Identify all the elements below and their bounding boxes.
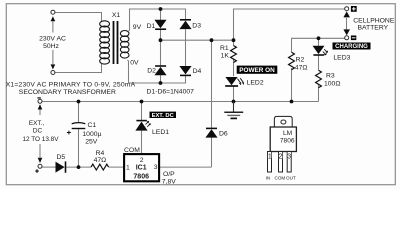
node D2 anode 0V rail — [159, 81, 163, 85]
svg-text:LED3: LED3 — [333, 54, 350, 61]
wire R2 column bottom — [291, 68, 293, 102]
svg-text:R3: R3 — [326, 72, 335, 79]
regulator IC1 box — [124, 154, 159, 181]
terminal battery plus — [345, 7, 349, 11]
svg-text:D4: D4 — [193, 68, 202, 75]
svg-text:OUT: OUT — [286, 175, 296, 180]
node C1 ground rail — [77, 100, 81, 104]
package leg 1 — [268, 152, 272, 173]
capacitor C1 — [67, 123, 85, 135]
svg-text:O/P: O/P — [163, 171, 175, 178]
label POWER ON — [237, 66, 278, 75]
wire LED1 top — [141, 102, 143, 121]
svg-text:1: 1 — [126, 165, 130, 172]
diode D6 — [205, 128, 217, 137]
wire AC vertical upper — [52, 21, 54, 33]
svg-text:50Hz: 50Hz — [43, 43, 59, 50]
wire AC bottom terminal to primary — [55, 64, 102, 73]
terminal AC top — [51, 10, 55, 14]
wire LED1 to IC1 com — [141, 131, 143, 155]
diode D2 — [154, 66, 166, 75]
svg-text:0V: 0V — [130, 59, 139, 66]
resistor R3 — [316, 70, 322, 88]
resistor R1 — [231, 46, 237, 63]
resistor R4 — [91, 164, 109, 170]
svg-text:LED1: LED1 — [152, 129, 169, 136]
svg-text:EXT.,: EXT., — [29, 120, 44, 127]
wire LED2 to ground rail — [233, 86, 235, 102]
svg-text:C1: C1 — [88, 122, 97, 129]
svg-text:25V: 25V — [85, 138, 98, 145]
svg-text:2: 2 — [140, 157, 144, 164]
border frame — [6, 4, 395, 185]
terminal ext dc plus — [38, 164, 42, 168]
wire D1 to node — [160, 29, 162, 40]
wire D1 column top — [160, 9, 162, 20]
svg-text:D1-D6=1N4007: D1-D6=1N4007 — [147, 89, 195, 96]
LED LED1 — [135, 121, 150, 131]
arrow ext dc up — [38, 104, 43, 109]
svg-text:DC: DC — [33, 127, 43, 134]
transformer X1 primary coil — [100, 21, 110, 64]
label ext dc minus — [37, 97, 40, 99]
svg-text:X1: X1 — [112, 12, 121, 19]
svg-text:3: 3 — [287, 153, 291, 160]
node bridge top — [159, 7, 163, 11]
label ext dc plus — [35, 169, 39, 173]
arrow AC down — [51, 64, 56, 69]
svg-text:1K: 1K — [221, 53, 230, 60]
wire battery arrows link — [346, 18, 348, 30]
svg-text:D6: D6 — [219, 130, 228, 137]
svg-text:1000µ: 1000µ — [82, 131, 101, 138]
node LED3 branch — [317, 36, 321, 40]
wire LED3 top — [318, 38, 320, 46]
svg-text:2: 2 — [278, 153, 282, 160]
node D1 cathode y40 — [159, 38, 163, 42]
svg-text:IN: IN — [266, 175, 271, 180]
terminal AC bottom — [51, 71, 55, 75]
transformer X1 secondary coil — [120, 31, 129, 59]
svg-text:EXT. DC: EXT. DC — [152, 113, 175, 119]
svg-text:47Ω: 47Ω — [295, 64, 308, 71]
wire secondary 9V to bridge top rail — [129, 9, 186, 31]
node LED1 ground rail — [140, 100, 144, 104]
ground — [224, 102, 243, 119]
package leg 3 — [287, 152, 291, 173]
svg-text:D5: D5 — [57, 154, 66, 161]
node R1 branch y40 — [232, 38, 236, 42]
label EXT. DC — [150, 112, 177, 119]
node R2 ground rail — [290, 100, 294, 104]
node D6 branch y40 — [210, 38, 214, 42]
svg-text:7806: 7806 — [133, 174, 149, 181]
terminal battery minus — [345, 36, 349, 40]
svg-text:LED2: LED2 — [247, 80, 264, 87]
svg-text:D3: D3 — [192, 23, 201, 30]
regulator LM7806 package tab — [274, 116, 292, 127]
LED LED2 — [225, 77, 243, 86]
wire ext dc plus to D5 — [42, 166, 56, 168]
wire ground rail corner up to R3 — [318, 85, 320, 102]
svg-text:3: 3 — [154, 164, 158, 171]
terminal ext dc minus — [38, 99, 42, 103]
svg-text:R1: R1 — [220, 45, 229, 52]
arrow AC up — [51, 16, 56, 21]
wire ext dc vertical lower — [39, 144, 41, 158]
wire R1 to LED2 — [233, 59, 235, 76]
svg-text:COM: COM — [124, 147, 140, 154]
svg-text:LM: LM — [283, 130, 292, 137]
node ground symbol — [232, 100, 236, 104]
svg-text:X1=230V AC PRIMARY TO 0-9V, 25: X1=230V AC PRIMARY TO 0-9V, 250mA — [6, 82, 136, 89]
svg-text:POWER ON: POWER ON — [239, 67, 275, 74]
wire D5 to R4 — [66, 166, 91, 168]
wire D2 to 0V rail — [160, 75, 162, 83]
wire DC plus rail y40 — [161, 39, 234, 41]
package body — [270, 127, 296, 152]
svg-text:7,8V: 7,8V — [162, 178, 176, 185]
wire C1 top — [78, 102, 80, 123]
svg-text:CELLPHONE: CELLPHONE — [353, 18, 395, 25]
arrow battery down — [343, 29, 350, 35]
arrow battery up — [343, 11, 350, 17]
svg-text:BATTERY: BATTERY — [357, 25, 388, 32]
wire ext dc vertical upper — [39, 110, 41, 116]
svg-text:IC1: IC1 — [136, 165, 147, 172]
svg-text:D1: D1 — [147, 23, 156, 30]
wire R4 to IC1 pin1 — [109, 166, 124, 168]
package hole — [281, 120, 286, 124]
wire IC1 pin3 output — [160, 166, 212, 168]
wire bridge bottom 0V rail — [129, 76, 186, 83]
diode D4 — [179, 66, 191, 75]
diode D1 — [154, 20, 166, 29]
svg-text:D2: D2 — [147, 67, 156, 74]
battery plus square — [351, 6, 357, 12]
svg-text:CHARGING: CHARGING — [335, 44, 368, 50]
svg-text:100Ω: 100Ω — [324, 80, 340, 87]
wire D6 to output line — [211, 137, 213, 167]
svg-text:9V: 9V — [133, 24, 142, 31]
wire AC vertical lower — [52, 50, 54, 64]
transformer X1 core — [114, 21, 118, 64]
svg-text:1: 1 — [268, 153, 272, 160]
svg-text:7806: 7806 — [280, 137, 295, 144]
wire secondary 0V down — [127, 60, 128, 83]
wire node y40 down to D6 — [211, 40, 213, 127]
svg-text:R2: R2 — [296, 56, 305, 63]
wire top rail to battery plus — [234, 9, 345, 40]
wire ground rail — [42, 101, 319, 103]
wire C1 bottom — [78, 129, 80, 167]
label CHARGING — [333, 43, 371, 51]
node C1 bottom D5-R4 — [77, 165, 81, 169]
wire LED3 to R3 — [318, 55, 320, 71]
LED LED3 — [313, 46, 328, 55]
wire AC top terminal to primary — [55, 13, 102, 22]
resistor R2 — [289, 52, 295, 70]
diode D5 — [56, 161, 66, 172]
wire node to R1 — [233, 40, 235, 45]
label IN COM OUT — [266, 175, 296, 180]
wire D3 to D4 — [185, 29, 187, 66]
diode D3 — [179, 20, 191, 29]
svg-text:SECONDARY TRANSFORMER: SECONDARY TRANSFORMER — [19, 89, 116, 96]
wire node to D2 — [160, 40, 162, 66]
arrow ext dc down — [38, 158, 43, 163]
wire battery minus line — [292, 38, 345, 52]
svg-text:12 TO 13.8V: 12 TO 13.8V — [22, 136, 59, 143]
svg-text:230V AC: 230V AC — [39, 36, 66, 43]
package leg 2 — [279, 152, 283, 173]
svg-text:COM: COM — [275, 175, 286, 180]
svg-text:47Ω: 47Ω — [94, 157, 107, 164]
battery minus square — [351, 36, 356, 41]
label pin numbers 1 2 3 — [268, 152, 291, 160]
